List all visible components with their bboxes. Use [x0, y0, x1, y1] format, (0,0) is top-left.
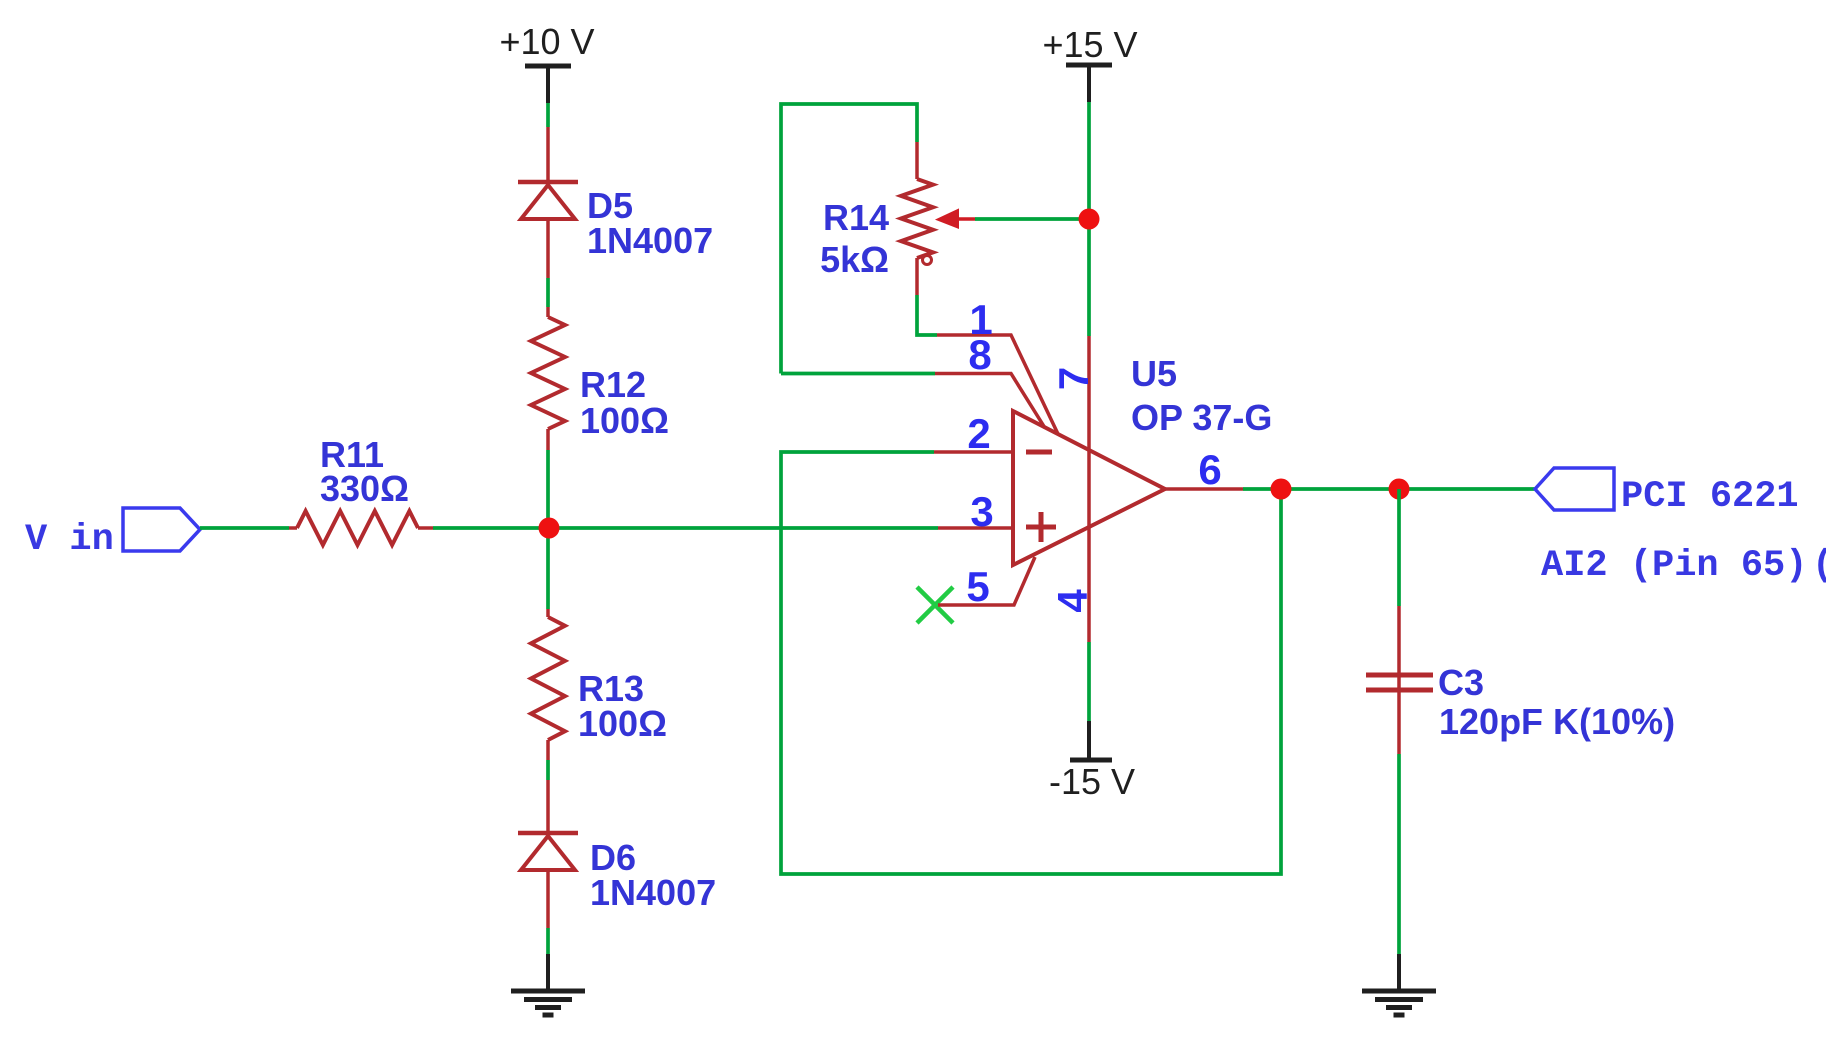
ground left	[511, 954, 585, 1015]
resistor R12	[531, 317, 565, 429]
V in label	[25, 519, 114, 561]
R11 label	[320, 434, 409, 509]
wire green output	[1243, 487, 1535, 491]
svg-text:4: 4	[1049, 589, 1096, 613]
diode D5	[518, 182, 578, 219]
connector V in	[123, 508, 200, 551]
node output junction	[1271, 479, 1292, 500]
R12 label	[580, 364, 669, 441]
wire red pin3 lead	[938, 526, 1013, 530]
svg-text:OP 37-G: OP 37-G	[1131, 397, 1272, 438]
node +15V junction	[1079, 209, 1100, 230]
D5 label	[587, 185, 713, 261]
R13 label	[578, 668, 667, 744]
svg-text:5: 5	[966, 563, 989, 610]
svg-text:(: (	[1812, 545, 1826, 587]
wire green D5-R12	[546, 278, 550, 307]
wire green Vin to R11	[200, 526, 289, 530]
wire red pin7 to pin4 vertical	[1087, 336, 1091, 642]
wire green junction to pin3	[548, 526, 938, 530]
R14 label	[820, 197, 889, 280]
connector PCI 6221	[1535, 468, 1614, 510]
svg-text:1N4007: 1N4007	[590, 872, 716, 913]
wire red to D6	[546, 780, 550, 833]
ground right	[1362, 954, 1436, 1015]
wire red lead R13	[546, 609, 550, 617]
svg-text:R14: R14	[823, 197, 889, 238]
wire red lead R12	[546, 307, 550, 317]
wire red below D6	[546, 870, 550, 928]
no-connect X pin5	[917, 587, 953, 623]
svg-text:6: 6	[1198, 446, 1221, 493]
op-amp U5	[1013, 411, 1165, 565]
wire green R11 to junction	[433, 526, 548, 530]
power +15V symbol	[1066, 65, 1112, 102]
wire red lead R11	[289, 526, 297, 530]
power +15V label	[1042, 24, 1137, 65]
svg-text:100Ω: 100Ω	[578, 703, 667, 744]
wire green C3 top	[1397, 489, 1401, 606]
wire red C3 bottom lead	[1397, 690, 1401, 754]
wire green above ground left	[546, 928, 550, 954]
power +10V symbol	[525, 66, 571, 103]
svg-text:2: 2	[967, 410, 990, 457]
wire red lead R14 top	[915, 142, 919, 179]
svg-text:8: 8	[968, 331, 991, 378]
power +10V label	[499, 21, 594, 62]
node junction Vin/R12/R13	[539, 518, 560, 539]
svg-text:5kΩ: 5kΩ	[820, 239, 889, 280]
diode D6	[518, 833, 578, 870]
wire green below +10V	[546, 103, 550, 127]
wire red C3 top lead	[1397, 606, 1401, 690]
svg-text:+15 V: +15 V	[1042, 24, 1137, 65]
U5 label	[1131, 353, 1272, 438]
wire green R12 to junction	[546, 450, 550, 609]
power -15V symbol	[1070, 721, 1112, 760]
wire green feedback (pin2 loop)	[781, 452, 1281, 874]
svg-text:C3: C3	[1438, 662, 1484, 703]
wire red lead R11 right	[418, 526, 433, 530]
wire green loop pin8/R14 top	[781, 104, 917, 374]
R14 wiper dot mark	[923, 256, 932, 265]
svg-text:1N4007: 1N4007	[587, 220, 713, 261]
R14 wiper arrow	[938, 210, 976, 228]
C3 label	[1438, 662, 1675, 742]
potentiometer R14	[901, 179, 933, 258]
wire green +15V down	[1087, 102, 1091, 336]
D6 label	[590, 837, 716, 913]
power -15V label	[1049, 761, 1135, 802]
svg-text:-15 V: -15 V	[1049, 761, 1135, 802]
svg-text:V in: V in	[25, 519, 114, 561]
wire red lead R14 bottom	[915, 258, 919, 295]
svg-text:330Ω: 330Ω	[320, 468, 409, 509]
wire red below R12	[546, 429, 550, 450]
wire green R14 bottom to pin1	[917, 295, 937, 335]
wire green pin4 down	[1087, 642, 1091, 721]
svg-text:+10 V: +10 V	[499, 21, 594, 62]
wire red to D5	[546, 127, 550, 182]
svg-text:AI2 (Pin 65): AI2 (Pin 65)	[1541, 545, 1807, 587]
wire red below D5	[546, 219, 550, 278]
svg-text:R12: R12	[580, 364, 646, 405]
resistor R13	[531, 617, 565, 740]
wire green pin8 horizontal	[781, 372, 935, 376]
wire red pin1	[937, 335, 1058, 434]
svg-text:PCI 6221: PCI 6221	[1621, 476, 1799, 518]
wire red pin2 lead	[934, 450, 1013, 454]
node C3 junction	[1389, 479, 1410, 500]
svg-text:120pF K(10%): 120pF K(10%)	[1439, 701, 1675, 742]
svg-text:100Ω: 100Ω	[580, 400, 669, 441]
wire green C3 to ground	[1397, 754, 1401, 954]
svg-text:3: 3	[970, 488, 993, 535]
wire red pin5	[938, 557, 1035, 605]
resistor R11	[297, 511, 418, 545]
wire red output pin6	[1165, 487, 1243, 491]
wire red pin8	[935, 374, 1045, 429]
wire green wiper to +15 rail	[975, 217, 1089, 221]
svg-text:7: 7	[1050, 367, 1097, 390]
wire red below R13	[546, 740, 550, 760]
PCI 6221 label	[1621, 476, 1799, 518]
wire green R13-D6	[546, 760, 550, 780]
clipped glyph at right edge	[1812, 545, 1826, 587]
svg-text:U5: U5	[1131, 353, 1177, 394]
capacitor C3	[1366, 675, 1433, 690]
AI2 (Pin 65) label	[1541, 545, 1807, 587]
